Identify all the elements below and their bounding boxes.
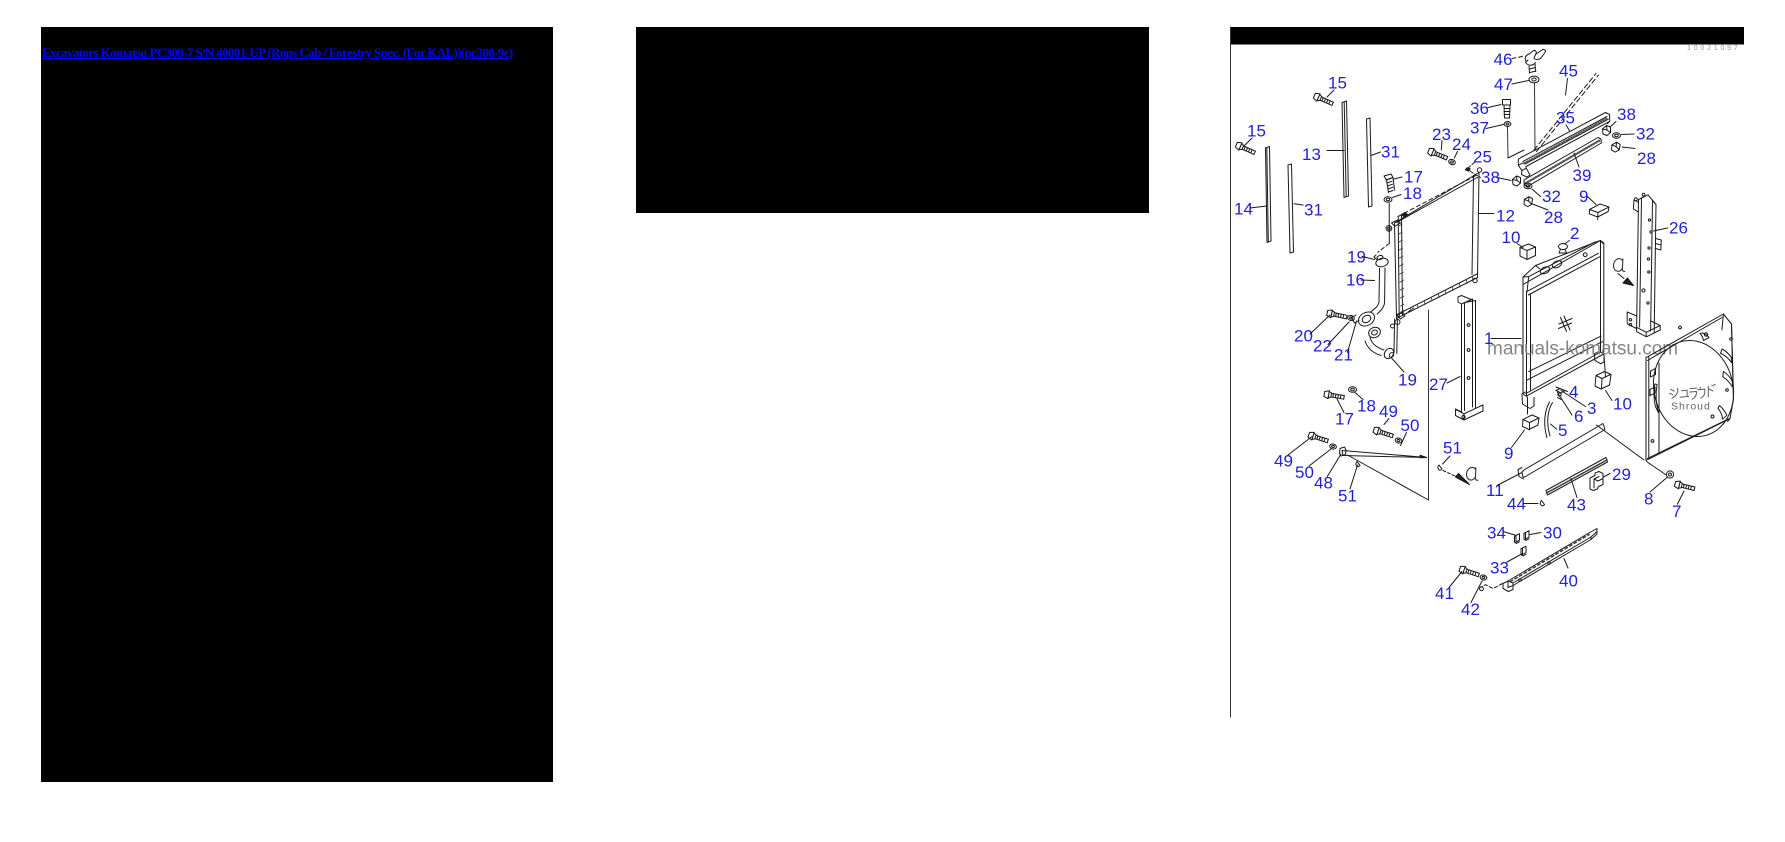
shroud vane mid right bbox=[1723, 372, 1733, 388]
leader 44 bbox=[1523, 503, 1538, 505]
core pin bottom bbox=[1395, 320, 1400, 325]
core 12 right header bbox=[1472, 176, 1474, 275]
fan shroud outline bbox=[1646, 314, 1734, 460]
svg-text:48: 48 bbox=[1314, 474, 1333, 493]
figure top black bar bbox=[1231, 27, 1744, 45]
svg-text:Shroud: Shroud bbox=[1671, 401, 1711, 413]
radiator 1 foot right bbox=[1595, 352, 1605, 364]
core pin right top bbox=[1477, 168, 1481, 172]
leader 48 bbox=[1327, 454, 1341, 477]
fan opening bbox=[1643, 332, 1743, 445]
nut 47 bbox=[1529, 76, 1539, 83]
bolt 49 top bbox=[1373, 426, 1394, 440]
bar 35 outline bbox=[1521, 113, 1610, 167]
svg-text:42: 42 bbox=[1461, 600, 1480, 619]
wire 33 ring bbox=[1480, 587, 1484, 591]
svg-text:24: 24 bbox=[1452, 135, 1471, 154]
svg-text:40: 40 bbox=[1559, 572, 1578, 591]
channel 27 bbox=[1462, 299, 1476, 412]
leader 41 bbox=[1449, 572, 1462, 588]
v-bar 48 bbox=[1342, 451, 1427, 458]
v-bar tip bbox=[1420, 455, 1427, 458]
hose lower bbox=[1365, 338, 1384, 356]
channel 26 top tab bbox=[1633, 193, 1645, 211]
flange 21 bbox=[1352, 309, 1383, 339]
nut 18 upper bbox=[1384, 197, 1392, 203]
letter a left bbox=[1466, 467, 1477, 480]
clip 38 left bbox=[1513, 176, 1521, 186]
svg-text:41: 41 bbox=[1435, 584, 1454, 603]
radiator 1 tank ports bbox=[1540, 253, 1587, 274]
radiator 1 foot left bbox=[1522, 392, 1534, 409]
radiator 1 left header bbox=[1523, 285, 1531, 397]
washer 22 bbox=[1347, 315, 1355, 322]
bracket 48 bbox=[1340, 447, 1347, 456]
vertical ref line bbox=[1428, 310, 1430, 500]
radiator 1 right edge bbox=[1526, 241, 1604, 394]
svg-text:46: 46 bbox=[1494, 50, 1513, 69]
leader 7 bbox=[1678, 491, 1685, 504]
leader 34 bbox=[1503, 532, 1515, 536]
svg-text:31: 31 bbox=[1381, 143, 1400, 162]
radiator 1 tank face bbox=[1523, 242, 1600, 295]
katakana shroud bbox=[1670, 384, 1716, 399]
svg-text:13: 13 bbox=[1302, 145, 1321, 164]
leader 9 top bbox=[1588, 197, 1597, 205]
svg-text:3: 3 bbox=[1587, 399, 1596, 418]
leader 15 mid bbox=[1327, 90, 1334, 97]
leader 36 bbox=[1488, 105, 1501, 108]
nut 32 left bbox=[1524, 183, 1532, 189]
leader 39 bbox=[1574, 153, 1579, 167]
svg-text:2: 2 bbox=[1570, 224, 1579, 243]
bolt 15 left bbox=[1235, 141, 1257, 156]
leader 9 bottom bbox=[1512, 430, 1525, 448]
svg-text:33: 33 bbox=[1490, 559, 1509, 578]
leader 18 upper bbox=[1393, 195, 1402, 198]
leader 38 left bbox=[1497, 178, 1511, 181]
core 12 top inner bbox=[1397, 177, 1480, 223]
washer 37 bbox=[1504, 122, 1511, 127]
line 47 to bar bbox=[1534, 83, 1537, 151]
svg-text:19: 19 bbox=[1398, 371, 1417, 390]
rod 45 bbox=[1534, 74, 1599, 152]
pin 44 bbox=[1540, 501, 1544, 506]
leader 24 bbox=[1454, 152, 1457, 159]
bar 40 left end bbox=[1503, 581, 1513, 592]
svg-text:38: 38 bbox=[1617, 105, 1636, 124]
bar 40 hatch bbox=[1511, 535, 1590, 582]
arrow a right bbox=[1618, 274, 1634, 286]
leader 29 bbox=[1604, 474, 1611, 478]
svg-text:18: 18 bbox=[1403, 184, 1422, 203]
link text bbox=[42, 44, 513, 62]
hash mark bbox=[1559, 316, 1573, 332]
leader 15 left bbox=[1244, 138, 1252, 146]
leader 45 bbox=[1566, 79, 1568, 96]
wing bolt 46 bbox=[1525, 49, 1545, 73]
middle black panel bbox=[636, 27, 1149, 213]
diag line bbox=[1348, 455, 1429, 500]
leader 49 top bbox=[1384, 419, 1389, 425]
svg-text:18: 18 bbox=[1357, 397, 1376, 416]
fan shroud left flange bbox=[1646, 356, 1659, 460]
clamp 29 bbox=[1590, 472, 1603, 491]
leader 33 bbox=[1507, 554, 1523, 563]
shroud vane bottom right bbox=[1718, 406, 1727, 420]
svg-text:30: 30 bbox=[1543, 524, 1562, 543]
clip 38 right bbox=[1603, 126, 1611, 136]
bolt 20 bbox=[1326, 309, 1347, 321]
svg-text:8: 8 bbox=[1644, 490, 1653, 509]
radiator core 12 outline bbox=[1395, 173, 1480, 319]
svg-text:27: 27 bbox=[1429, 375, 1448, 394]
bar 35 left end bbox=[1518, 158, 1530, 178]
leader 5 bbox=[1551, 424, 1557, 429]
leader 30 bbox=[1530, 533, 1541, 535]
leader 47 bbox=[1512, 81, 1529, 85]
leader 2 bbox=[1565, 241, 1570, 245]
svg-text:20: 20 bbox=[1294, 327, 1313, 346]
channel 26 bbox=[1637, 195, 1656, 333]
line 37 diag bbox=[1508, 150, 1524, 158]
svg-text:21: 21 bbox=[1334, 346, 1353, 365]
leader 27 bbox=[1447, 377, 1460, 384]
bar 39 hatch bbox=[1526, 141, 1600, 184]
bar 35 slot bbox=[1523, 117, 1608, 165]
line 37 down bbox=[1507, 127, 1510, 158]
leader 31 lower bbox=[1294, 204, 1303, 205]
washer 24 bbox=[1448, 158, 1456, 165]
channel 26 holes bbox=[1629, 219, 1652, 326]
svg-text:32: 32 bbox=[1542, 187, 1561, 206]
svg-text:51: 51 bbox=[1338, 487, 1357, 506]
leader 17 lower bbox=[1337, 399, 1344, 413]
leader 23 bbox=[1440, 141, 1443, 151]
leader 51 right bbox=[1443, 456, 1451, 464]
leader 19 lower bbox=[1392, 358, 1405, 372]
nut 18 lower bbox=[1349, 387, 1357, 393]
leader shroud corner to 8 bbox=[1647, 462, 1666, 475]
pin 51 right bbox=[1438, 465, 1442, 470]
clip 28 right bbox=[1611, 142, 1621, 153]
leader 4 bbox=[1556, 387, 1568, 392]
svg-text:29: 29 bbox=[1612, 465, 1631, 484]
bar 40 outline bbox=[1508, 529, 1597, 588]
bolt 7 bbox=[1674, 480, 1695, 493]
leader 11 bbox=[1497, 473, 1522, 486]
channel 27 holes bbox=[1462, 324, 1470, 419]
bar 35 hatch bbox=[1525, 118, 1608, 163]
leader 38 right bbox=[1610, 122, 1616, 128]
bracket 10 right bbox=[1595, 372, 1611, 390]
svg-text:28: 28 bbox=[1544, 208, 1563, 227]
clip 30 bbox=[1524, 531, 1529, 541]
leader 8 bbox=[1650, 478, 1667, 493]
radiator 1 leg line bbox=[1528, 355, 1606, 414]
svg-text:39: 39 bbox=[1573, 166, 1592, 185]
leader 3 bbox=[1561, 391, 1586, 407]
leader 21 bbox=[1348, 321, 1357, 353]
leader 12 bbox=[1479, 213, 1494, 215]
leader 50 top bbox=[1401, 433, 1407, 446]
washer 50 left bbox=[1329, 443, 1337, 450]
washer 42 bbox=[1480, 574, 1488, 581]
wire 33 bbox=[1481, 584, 1502, 589]
leader 19 upper bbox=[1362, 257, 1375, 260]
leader 32 right bbox=[1622, 133, 1635, 136]
leader 46 bbox=[1512, 56, 1523, 58]
core 12 left fins bbox=[1399, 224, 1405, 312]
strip 13 bbox=[1342, 101, 1349, 198]
bar 11 left tab bbox=[1518, 468, 1524, 480]
leader 20 bbox=[1310, 315, 1330, 334]
svg-text:47: 47 bbox=[1494, 75, 1513, 94]
shroud vane top right bbox=[1721, 349, 1732, 363]
bolt 15 mid bbox=[1313, 92, 1335, 107]
core 12 top dashed bbox=[1398, 176, 1476, 217]
svg-text:10021097: 10021097 bbox=[1687, 45, 1741, 52]
clamp 19a bbox=[1374, 255, 1389, 268]
channel 26 foot bbox=[1627, 312, 1660, 337]
bar 40 holes bbox=[1519, 562, 1551, 582]
shroud crescent top bbox=[1700, 333, 1709, 341]
core 12 bottom fins bbox=[1403, 277, 1473, 316]
filler cap 2 bbox=[1559, 244, 1568, 254]
pipe 16 bbox=[1371, 268, 1386, 314]
radiator 1 outline bbox=[1523, 241, 1604, 397]
small bolt on top edge bbox=[1402, 213, 1408, 217]
svg-text:6: 6 bbox=[1574, 407, 1583, 426]
svg-text:14: 14 bbox=[1234, 200, 1253, 219]
left black panel bbox=[41, 27, 553, 782]
leader 1 bbox=[1491, 338, 1521, 340]
svg-text:31: 31 bbox=[1304, 201, 1323, 220]
fan shroud bottom edge inner bbox=[1648, 419, 1729, 459]
svg-text:32: 32 bbox=[1636, 125, 1655, 144]
leader 22 bbox=[1328, 322, 1349, 345]
shroud tabs bbox=[1650, 326, 1732, 442]
shroud vane left bbox=[1654, 384, 1658, 413]
drain parts 4 3 6 bbox=[1556, 389, 1565, 400]
bracket 9 bottom bbox=[1523, 415, 1540, 430]
radiator 1 bottom tank bbox=[1527, 336, 1602, 380]
core pin right bottom bbox=[1473, 278, 1477, 282]
svg-text:10: 10 bbox=[1613, 395, 1632, 414]
leader 13 bbox=[1327, 150, 1344, 152]
long diagonal to shroud bbox=[1597, 425, 1645, 460]
stud line 18 dash bbox=[1378, 243, 1390, 252]
svg-text:22: 22 bbox=[1313, 337, 1332, 356]
leader 32 left bbox=[1532, 189, 1541, 197]
leader 50 left bbox=[1309, 449, 1331, 466]
core drain pipe bbox=[1394, 319, 1397, 354]
bracket 9 top bbox=[1589, 204, 1609, 220]
leader 28 left bbox=[1533, 204, 1549, 210]
svg-text:43: 43 bbox=[1567, 496, 1586, 515]
leader 37 bbox=[1486, 125, 1504, 129]
leader 6 bbox=[1558, 393, 1573, 416]
svg-text:45: 45 bbox=[1559, 62, 1578, 81]
bolt 17 lower bbox=[1324, 390, 1345, 401]
hose 5 bbox=[1545, 402, 1553, 438]
bolt 41 bbox=[1459, 565, 1480, 579]
svg-text:49: 49 bbox=[1379, 402, 1398, 421]
svg-text:35: 35 bbox=[1556, 109, 1575, 128]
leader 17 upper bbox=[1394, 177, 1402, 179]
clip 33 bbox=[1521, 546, 1526, 556]
figure page border bbox=[1230, 27, 1232, 717]
letter a right bbox=[1613, 259, 1624, 272]
leader 10 right bbox=[1606, 391, 1613, 401]
svg-text:28: 28 bbox=[1637, 149, 1656, 168]
svg-text:15: 15 bbox=[1328, 74, 1347, 93]
bracket 10 left bbox=[1520, 244, 1536, 260]
leader 25 bbox=[1467, 163, 1474, 170]
leader 42 bbox=[1471, 581, 1482, 603]
stud line 18 bbox=[1388, 204, 1390, 244]
core 12 bottom inner bbox=[1397, 274, 1477, 315]
nut 32 right bbox=[1613, 133, 1621, 139]
core 12 left header bbox=[1398, 216, 1402, 318]
core pin top bbox=[1386, 226, 1392, 232]
fan shroud top edge inner bbox=[1648, 318, 1723, 361]
svg-text:36: 36 bbox=[1470, 99, 1489, 118]
svg-text:26: 26 bbox=[1669, 219, 1688, 238]
pin 51 left bbox=[1356, 462, 1360, 467]
corner bolt at core bbox=[1397, 308, 1414, 319]
leader 28 right bbox=[1622, 147, 1635, 149]
bolt 23 bbox=[1427, 147, 1449, 162]
bolt 36 bbox=[1503, 100, 1511, 119]
bar 11 bbox=[1522, 424, 1605, 478]
svg-text:12: 12 bbox=[1496, 207, 1515, 226]
clip 28 left bbox=[1523, 196, 1533, 207]
clip 34 bbox=[1515, 534, 1520, 544]
fan shroud right edges bbox=[1722, 314, 1734, 422]
svg-text:7: 7 bbox=[1672, 502, 1681, 521]
leader 10 left bbox=[1517, 244, 1523, 248]
washer 50 top bbox=[1395, 437, 1403, 444]
svg-text:25: 25 bbox=[1473, 148, 1492, 167]
leader 31 upper bbox=[1371, 152, 1381, 156]
svg-text:50: 50 bbox=[1401, 416, 1420, 435]
leader 51 left bbox=[1350, 465, 1358, 489]
rod 43 hatch bbox=[1547, 460, 1607, 493]
svg-text:49: 49 bbox=[1274, 452, 1293, 471]
radiator 1 top tank bbox=[1523, 241, 1603, 285]
svg-text:34: 34 bbox=[1487, 524, 1506, 543]
svg-text:51: 51 bbox=[1443, 439, 1462, 458]
strip 14 bbox=[1266, 147, 1272, 243]
rod 43 bbox=[1546, 458, 1608, 496]
svg-text:50: 50 bbox=[1295, 463, 1314, 482]
pin 25 bbox=[1465, 168, 1470, 172]
strip 31b bbox=[1367, 118, 1373, 207]
svg-text:15: 15 bbox=[1247, 122, 1266, 141]
bolt 49 left bbox=[1308, 431, 1329, 445]
bar 39 outline bbox=[1524, 138, 1601, 187]
leader 16 bbox=[1361, 279, 1375, 282]
clamp 19b bbox=[1382, 347, 1395, 361]
svg-text:manuals-komatsu.com: manuals-komatsu.com bbox=[1487, 339, 1678, 360]
channel 26 side hook bbox=[1655, 239, 1661, 251]
leader 40 bbox=[1564, 559, 1568, 569]
svg-text:5: 5 bbox=[1558, 421, 1567, 440]
leader 49 left bbox=[1288, 437, 1312, 456]
strip 31a bbox=[1288, 164, 1294, 253]
channel 27 top tab bbox=[1458, 296, 1473, 305]
leader 26 bbox=[1654, 228, 1668, 231]
leader 14 bbox=[1250, 206, 1267, 208]
bolt 17 upper bbox=[1384, 174, 1395, 193]
leader 43 bbox=[1571, 479, 1577, 498]
washer 8 bbox=[1666, 471, 1673, 478]
leader 35 bbox=[1566, 125, 1570, 132]
leader 18 lower bbox=[1355, 393, 1363, 400]
dash 25 to 38 bbox=[1471, 172, 1481, 178]
bar 40 inner bbox=[1508, 532, 1597, 586]
channel 27 foot bbox=[1456, 405, 1484, 420]
arrow a left bbox=[1443, 471, 1470, 485]
